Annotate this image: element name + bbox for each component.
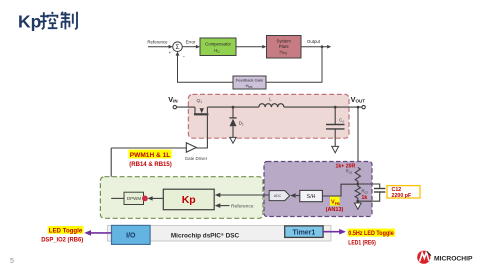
svg-text:LED Toggle: LED Toggle	[49, 227, 83, 234]
wire S/H to ADC	[296, 195, 300, 197]
block Compensator Hc	[200, 38, 236, 56]
svg-text:-: -	[183, 54, 185, 60]
label LED Toggle	[41, 226, 83, 244]
dsPIC bar	[108, 226, 332, 242]
node divider tap	[356, 183, 359, 186]
inductor L	[259, 97, 284, 108]
transistor Q1	[194, 98, 208, 114]
resistor R01	[346, 167, 361, 184]
wire reference to summer	[148, 46, 169, 48]
svg-text:Kp: Kp	[182, 194, 196, 206]
label 0.5Hz LED Toggle	[348, 229, 396, 247]
title hanzi ZHI (制) drawn strokes	[61, 12, 77, 30]
block S/H	[300, 190, 323, 201]
wire divider tap to S/H	[322, 184, 357, 196]
wire PWM vertical	[110, 148, 112, 198]
capacitor C12	[374, 189, 385, 193]
ground under D1	[230, 137, 236, 143]
wire VOUT sense drop	[357, 107, 359, 167]
terminal VOUT	[362, 105, 365, 108]
title hanzi KONG (控) drawn strokes	[40, 12, 57, 30]
wire switch node	[207, 106, 259, 108]
wire summer to compensator	[182, 46, 196, 48]
purple dashed analog box	[264, 162, 372, 217]
wire feedback right drop	[266, 47, 322, 83]
capacitor Co	[326, 107, 345, 146]
svg-text:S/H: S/H	[307, 194, 316, 200]
svg-text:Output: Output	[307, 39, 321, 44]
wire reference into Kp	[220, 205, 230, 207]
gate driver U	[185, 143, 208, 161]
node cap junction	[334, 106, 337, 109]
svg-text:LED1 (RE6): LED1 (RE6)	[348, 240, 376, 247]
svg-text:+: +	[168, 51, 171, 56]
node switch junction	[232, 106, 235, 109]
terminal VIN	[173, 105, 176, 108]
svg-text:Feedback Gain: Feedback Gain	[236, 78, 263, 83]
wire PWM to gate driver	[111, 147, 186, 149]
node divider bottom	[356, 200, 359, 203]
red dot marker	[142, 196, 148, 202]
svg-text:I/O: I/O	[126, 233, 136, 240]
wire compensator to plant	[236, 46, 263, 48]
svg-text:Microchip dsPIC® DSC: Microchip dsPIC® DSC	[171, 232, 240, 240]
wire ADC to Kp	[220, 194, 269, 196]
svg-text:(AN13): (AN13)	[326, 207, 344, 213]
svg-text:5: 5	[10, 258, 14, 265]
wire Kp to DPWM	[152, 197, 163, 199]
svg-text:Reference: Reference	[147, 39, 168, 44]
svg-text:PWM1H & 1L: PWM1H & 1L	[130, 152, 171, 159]
svg-text:Gate Driver: Gate Driver	[185, 156, 208, 161]
svg-text:MICROCHIP: MICROCHIP	[434, 255, 473, 262]
summing junction	[173, 42, 183, 52]
wire VIN to Q1	[177, 106, 196, 108]
svg-text:Plant: Plant	[279, 44, 290, 49]
svg-text:Compensator: Compensator	[205, 42, 231, 47]
block Timer1	[285, 226, 323, 238]
adc U2	[269, 191, 290, 201]
block System Plant Hps	[267, 36, 302, 59]
wire plant to output	[301, 46, 327, 48]
wire feedback to summer	[178, 55, 234, 82]
svg-text:0.5Hz LED Toggle: 0.5Hz LED Toggle	[348, 230, 394, 237]
node output junction	[321, 45, 324, 48]
label PWM1H & 1L	[129, 150, 172, 168]
node sense junction	[357, 106, 360, 109]
svg-text:Reference: Reference	[231, 204, 254, 210]
ground divider	[354, 203, 361, 209]
wire Timer1 to LED label (purple)	[323, 231, 340, 233]
label VFB	[330, 197, 340, 206]
wire DPWM output	[111, 197, 124, 199]
wire I/O to LED label (purple)	[90, 232, 112, 234]
svg-text:(RB14 & RB15): (RB14 & RB15)	[129, 161, 172, 168]
block Kp	[163, 189, 214, 210]
wire inductor to VOUT	[284, 106, 362, 108]
svg-text:Kp: Kp	[18, 11, 41, 31]
svg-text:Timer1: Timer1	[292, 229, 315, 236]
resistor R02	[355, 184, 368, 201]
svg-text:DSP_IO2 (RB6): DSP_IO2 (RB6)	[41, 237, 83, 244]
value label C12 2200pF	[387, 186, 420, 199]
svg-text:Error: Error	[186, 39, 196, 44]
svg-text:System: System	[277, 38, 292, 43]
block I/O	[112, 225, 151, 244]
green dashed DSC compute box	[100, 177, 263, 219]
svg-text:ADC: ADC	[274, 194, 282, 198]
Microchip logo	[417, 251, 473, 264]
wire C12 bottom	[358, 192, 380, 201]
svg-text:L: L	[269, 97, 272, 102]
svg-text:Σ: Σ	[175, 44, 179, 51]
wire C12 top	[358, 184, 380, 188]
block DPWM	[124, 192, 144, 204]
wire to ground	[357, 201, 359, 203]
svg-text:1k: 1k	[362, 195, 368, 201]
ground under Co	[332, 146, 339, 152]
wire Q1 gate to driver	[197, 115, 208, 148]
svg-text:2200 pF: 2200 pF	[392, 193, 412, 199]
block Feedback Gain Hfb	[233, 76, 266, 89]
svg-text:DPWM: DPWM	[127, 196, 141, 201]
pink dashed power-stage box	[188, 94, 349, 138]
diode D1	[229, 107, 244, 137]
